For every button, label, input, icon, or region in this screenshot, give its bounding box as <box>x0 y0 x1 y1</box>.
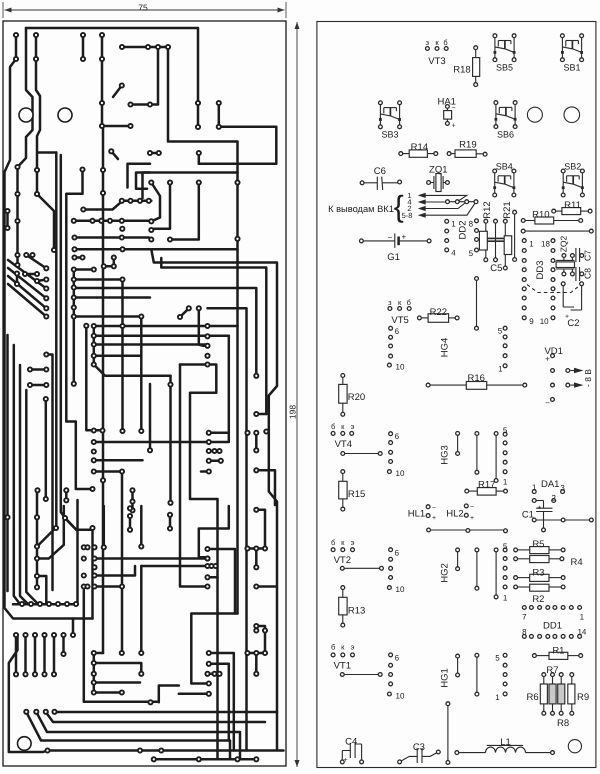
svg-text:1: 1 <box>532 483 537 492</box>
svg-text:L1: L1 <box>500 737 511 748</box>
svg-text:R12: R12 <box>482 201 493 218</box>
svg-text:R4: R4 <box>571 557 583 568</box>
svg-text:ZQ1: ZQ1 <box>429 164 447 175</box>
svg-text:−: − <box>451 105 455 112</box>
svg-text:VT4: VT4 <box>335 439 352 450</box>
svg-text:−: − <box>470 504 474 511</box>
svg-text:1: 1 <box>503 477 508 486</box>
svg-text:C8: C8 <box>582 268 592 279</box>
svg-text:6: 6 <box>395 548 400 557</box>
svg-text:R15: R15 <box>348 489 365 500</box>
svg-text:+: + <box>401 232 406 241</box>
svg-text:б: б <box>407 298 411 307</box>
svg-text:б: б <box>331 643 335 652</box>
svg-text:−: − <box>432 505 436 512</box>
svg-text:- 8 В: - 8 В <box>583 369 593 387</box>
svg-text:R14: R14 <box>411 142 428 153</box>
svg-text:5: 5 <box>498 326 503 335</box>
svg-text:+: + <box>432 515 436 522</box>
svg-text:R6: R6 <box>527 692 539 703</box>
svg-text:R10: R10 <box>532 209 549 220</box>
svg-text:VT1: VT1 <box>334 660 351 671</box>
svg-text:10: 10 <box>396 691 405 700</box>
svg-text:DA1: DA1 <box>541 479 559 490</box>
svg-text:C7: C7 <box>582 250 592 261</box>
svg-text:+: + <box>451 122 455 129</box>
svg-text:G1: G1 <box>387 252 400 263</box>
svg-text:з: з <box>388 298 392 307</box>
svg-text:C1: C1 <box>522 509 534 520</box>
svg-text:+: + <box>470 515 474 522</box>
svg-text:R21: R21 <box>502 201 513 218</box>
svg-text:э: э <box>351 643 355 652</box>
svg-text:1: 1 <box>495 693 500 702</box>
svg-text:R22: R22 <box>430 307 447 318</box>
svg-text:HG2: HG2 <box>440 563 451 583</box>
svg-text:HG1: HG1 <box>440 668 451 688</box>
svg-text:SB4: SB4 <box>496 162 513 172</box>
svg-text:C2: C2 <box>567 318 579 329</box>
svg-text:−: − <box>545 398 550 407</box>
svg-text:э: э <box>351 422 355 431</box>
svg-text:R9: R9 <box>577 692 589 703</box>
svg-text:К выводам ВК1: К выводам ВК1 <box>328 204 394 214</box>
svg-text:DD3: DD3 <box>535 260 546 279</box>
svg-text:198: 198 <box>287 405 297 419</box>
svg-text:9: 9 <box>529 317 534 326</box>
svg-text:R17: R17 <box>478 480 495 491</box>
svg-text:з: з <box>426 38 430 47</box>
svg-text:HL2: HL2 <box>446 508 463 519</box>
svg-text:R1: R1 <box>552 645 564 656</box>
svg-text:VT5: VT5 <box>391 315 408 326</box>
svg-text:10: 10 <box>396 585 405 594</box>
svg-text:HL1: HL1 <box>408 508 425 519</box>
svg-text:SB6: SB6 <box>497 129 514 139</box>
svg-text:5: 5 <box>469 249 474 258</box>
svg-text:SB1: SB1 <box>563 62 580 72</box>
svg-text:C4: C4 <box>345 736 357 747</box>
svg-text:C3: C3 <box>413 742 425 753</box>
svg-text:18: 18 <box>541 239 550 248</box>
svg-text:6: 6 <box>395 653 400 662</box>
svg-text:5: 5 <box>495 654 500 663</box>
svg-text:R16: R16 <box>467 373 484 384</box>
svg-text:6: 6 <box>395 432 400 441</box>
svg-text:5-8: 5-8 <box>402 211 413 220</box>
svg-text:R2: R2 <box>532 594 544 605</box>
svg-text:5: 5 <box>503 542 508 551</box>
svg-text:2: 2 <box>551 493 556 502</box>
svg-text:SB5: SB5 <box>496 62 513 72</box>
svg-text:10: 10 <box>396 362 405 371</box>
svg-text:4: 4 <box>451 248 456 257</box>
svg-text:7: 7 <box>522 612 527 621</box>
svg-text:C6: C6 <box>374 166 386 177</box>
svg-text:VT2: VT2 <box>334 555 351 566</box>
svg-text:R8: R8 <box>557 718 569 729</box>
svg-text:1: 1 <box>529 239 534 248</box>
svg-text:DD2: DD2 <box>457 220 468 239</box>
svg-text:DD1: DD1 <box>543 620 562 631</box>
svg-text:R18: R18 <box>453 64 470 75</box>
svg-text:8: 8 <box>522 627 527 636</box>
svg-text:1: 1 <box>498 364 503 373</box>
svg-text:+: + <box>545 354 550 363</box>
svg-text:HG4: HG4 <box>440 338 451 358</box>
svg-text:R11: R11 <box>564 200 581 211</box>
svg-text:SB2: SB2 <box>564 162 581 172</box>
svg-text:R7: R7 <box>546 665 558 676</box>
svg-text:+: + <box>343 757 347 764</box>
svg-text:ZQ2: ZQ2 <box>558 235 568 252</box>
svg-text:R19: R19 <box>459 139 476 150</box>
svg-text:6: 6 <box>395 327 400 336</box>
svg-text:+: + <box>537 504 541 511</box>
svg-text:C5: C5 <box>490 263 502 274</box>
svg-text:5: 5 <box>503 426 508 435</box>
svg-text:−: − <box>388 233 393 242</box>
svg-text:HG3: HG3 <box>440 445 451 465</box>
svg-text:SB3: SB3 <box>381 129 398 139</box>
svg-text:75: 75 <box>138 2 148 12</box>
svg-text:R3: R3 <box>532 567 544 578</box>
svg-text:10: 10 <box>396 469 405 478</box>
svg-text:R5: R5 <box>532 539 544 550</box>
svg-text:э: э <box>351 538 355 547</box>
svg-text:б: б <box>331 538 335 547</box>
svg-text:б: б <box>443 38 447 47</box>
svg-text:8: 8 <box>469 219 474 228</box>
svg-text:1: 1 <box>451 219 456 228</box>
svg-text:б: б <box>331 422 335 431</box>
svg-text:1: 1 <box>580 612 585 621</box>
svg-text:R13: R13 <box>348 605 365 616</box>
svg-text:1: 1 <box>503 594 508 603</box>
svg-text:14: 14 <box>577 627 586 636</box>
svg-text:10: 10 <box>540 317 549 326</box>
svg-text:VT3: VT3 <box>428 56 445 67</box>
svg-text:R20: R20 <box>348 392 365 403</box>
svg-text:3: 3 <box>560 483 565 492</box>
